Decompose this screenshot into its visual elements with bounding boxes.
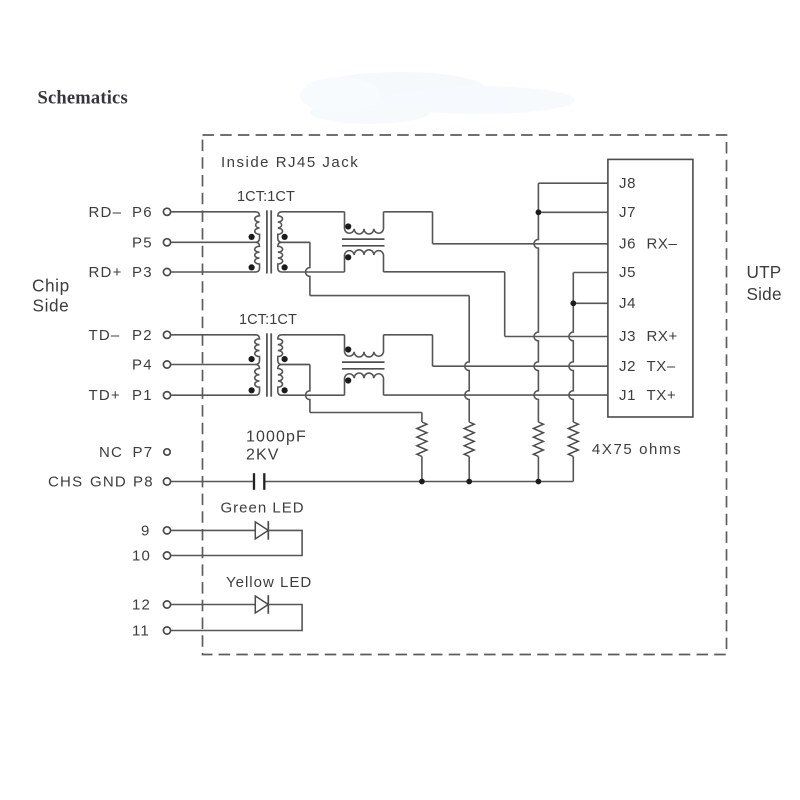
connector J1-J8 RJ45 body: [608, 159, 693, 417]
LED D1 green diode: [255, 522, 268, 539]
pin P2 terminal: [163, 331, 170, 338]
svg-text:P6: P6: [132, 204, 153, 221]
choke L2 core: [342, 361, 385, 363]
wire to J7: [538, 211, 608, 213]
LED D2 yellow cathode loop: [171, 605, 303, 631]
wire to J8: [538, 182, 608, 184]
svg-text:P8: P8: [133, 474, 154, 491]
transformer T1 secondary winding: [278, 212, 345, 243]
transformer T2 phase dots: [249, 356, 255, 362]
wire J5/J4 down to resistor R4: [569, 273, 573, 423]
LED D2 yellow anode wire: [171, 604, 256, 606]
wire P6 to T1 primary top: [171, 211, 256, 213]
svg-text:TX–: TX–: [647, 358, 676, 375]
junction R1 to chassis net: [419, 479, 425, 485]
svg-text:Schematics: Schematics: [38, 89, 128, 109]
transformer T2 core: [266, 333, 268, 396]
svg-text:P5: P5: [132, 234, 153, 251]
LED D1 green cathode loop: [171, 530, 303, 555]
wire node CT1 to resistor R2: [310, 295, 469, 297]
choke L2 bottom winding: [345, 373, 384, 395]
svg-text:P1: P1: [132, 387, 153, 404]
svg-text:Side: Side: [747, 284, 782, 304]
svg-text:GND: GND: [90, 474, 127, 491]
wire to J5: [573, 272, 608, 274]
svg-text:4X75 ohms: 4X75 ohms: [592, 441, 682, 458]
LED D2 yellow diode: [255, 596, 268, 613]
svg-text:TD–: TD–: [89, 327, 121, 344]
wire P3 to T1 primary bottom: [171, 271, 256, 273]
choke L2 top winding: [345, 335, 384, 357]
junction J7/J8 node: [536, 209, 542, 215]
svg-text:RX+: RX+: [647, 328, 678, 345]
wire P5 to T1 primary center tap: [171, 241, 256, 243]
wire P8 to capacitor C1: [171, 481, 253, 483]
svg-text:P4: P4: [132, 357, 153, 374]
svg-text:J4: J4: [619, 295, 636, 312]
resistor R2 75 ohm: [464, 422, 474, 457]
svg-text:J7: J7: [619, 204, 636, 221]
wire T2 secondary center tap down (node CT2): [306, 365, 310, 413]
svg-text:1000pF: 1000pF: [246, 429, 307, 446]
resistor R4 75 ohm: [568, 422, 578, 457]
svg-text:RD–: RD–: [89, 204, 123, 221]
pin 12 terminal: [163, 601, 170, 608]
svg-text:1CT:1CT: 1CT:1CT: [239, 312, 297, 328]
svg-text:J2: J2: [619, 358, 636, 375]
wire to J3 RX+: [505, 336, 608, 338]
LED D1 green anode wire: [171, 529, 256, 531]
svg-text:Inside RJ45 Jack: Inside RJ45 Jack: [221, 154, 359, 171]
svg-text:P7: P7: [133, 444, 154, 461]
wire capacitor C1 to resistors (chassis net): [265, 481, 573, 483]
svg-text:J1: J1: [619, 387, 636, 404]
pin 10 terminal: [163, 552, 170, 559]
wire L1 top out: [384, 211, 433, 213]
choke L1 top winding: [345, 212, 384, 234]
faint watermark smudge: [300, 72, 575, 124]
svg-text:RD+: RD+: [89, 264, 123, 281]
wire J8/J7 down to resistor R3: [534, 183, 538, 422]
transformer T1 phase dots: [249, 234, 255, 240]
capacitor C1 1000pF 2KV: [253, 473, 255, 490]
junction R2 to chassis net: [466, 479, 472, 485]
pin P3 terminal: [163, 268, 170, 275]
svg-text:Side: Side: [33, 295, 70, 315]
svg-text:P2: P2: [132, 327, 153, 344]
svg-text:RX–: RX–: [647, 236, 678, 253]
wire P2 to T2 primary top: [171, 334, 256, 336]
transformer T2 secondary winding: [278, 335, 345, 365]
wire node CT2 to resistor R1: [310, 412, 422, 414]
junction R3 to chassis net: [536, 479, 542, 485]
wire to J6 RX-: [433, 243, 608, 245]
svg-text:TD+: TD+: [89, 387, 121, 404]
wire node CT2 down to resistor R1: [421, 413, 423, 423]
svg-text:P3: P3: [132, 264, 153, 281]
junction J5/J4 node: [570, 300, 576, 306]
pin 11 terminal: [163, 627, 170, 634]
svg-text:Yellow LED: Yellow LED: [226, 574, 312, 591]
svg-text:Green LED: Green LED: [221, 500, 305, 517]
wire L1 bottom out down to J3 level: [504, 272, 506, 337]
wire to J1 TX+ (L2 bottom out): [384, 394, 608, 396]
svg-text:J6: J6: [619, 236, 636, 253]
svg-text:9: 9: [141, 522, 151, 539]
wire P1 to T2 primary bottom: [171, 394, 256, 396]
svg-text:NC: NC: [99, 444, 123, 461]
choke L1 bottom winding: [345, 250, 384, 272]
svg-text:Chip: Chip: [32, 275, 70, 295]
svg-text:1CT:1CT: 1CT:1CT: [237, 189, 295, 205]
pin P7 terminal: [164, 449, 170, 455]
svg-text:11: 11: [132, 623, 150, 640]
svg-text:J3: J3: [619, 328, 636, 345]
svg-text:TX+: TX+: [647, 387, 677, 404]
svg-text:UTP: UTP: [747, 262, 782, 282]
resistor R3 75 ohm: [533, 422, 543, 457]
pin 9 terminal: [163, 527, 170, 534]
svg-text:J8: J8: [619, 175, 636, 192]
wire P4 to T2 primary center tap: [171, 364, 256, 366]
wire L2 top out down to J2 level: [432, 335, 434, 366]
wire L1 bottom out: [384, 271, 505, 273]
pin P6 terminal: [163, 208, 170, 215]
wire T1 secondary center tap down (node CT1): [306, 242, 310, 295]
svg-text:10: 10: [132, 548, 151, 565]
wire to J2 TX-: [433, 365, 608, 367]
choke L1 core: [342, 238, 385, 240]
dashed enclosure Inside RJ45 Jack: [203, 135, 727, 655]
wire to J4: [573, 302, 608, 304]
svg-text:2KV: 2KV: [246, 447, 280, 464]
wire node CT1 down to resistor R2: [465, 296, 469, 422]
pin P4 terminal: [163, 361, 170, 368]
transformer T1 core: [266, 210, 268, 273]
wire L1 top out down to J6 level: [432, 212, 434, 244]
pin P5 terminal: [163, 239, 170, 246]
transformer T1 primary winding: [255, 212, 260, 243]
svg-text:12: 12: [132, 597, 151, 614]
svg-text:J5: J5: [619, 264, 636, 281]
choke L1 phase dots: [345, 223, 351, 229]
transformer T2 primary winding: [255, 335, 260, 365]
wire L2 top out: [384, 334, 433, 336]
choke L2 phase dots: [345, 346, 351, 352]
pin P8 terminal: [163, 478, 170, 485]
pin P1 terminal: [163, 392, 170, 399]
resistor R1 75 ohm: [417, 422, 427, 457]
svg-text:CHS: CHS: [48, 474, 83, 491]
